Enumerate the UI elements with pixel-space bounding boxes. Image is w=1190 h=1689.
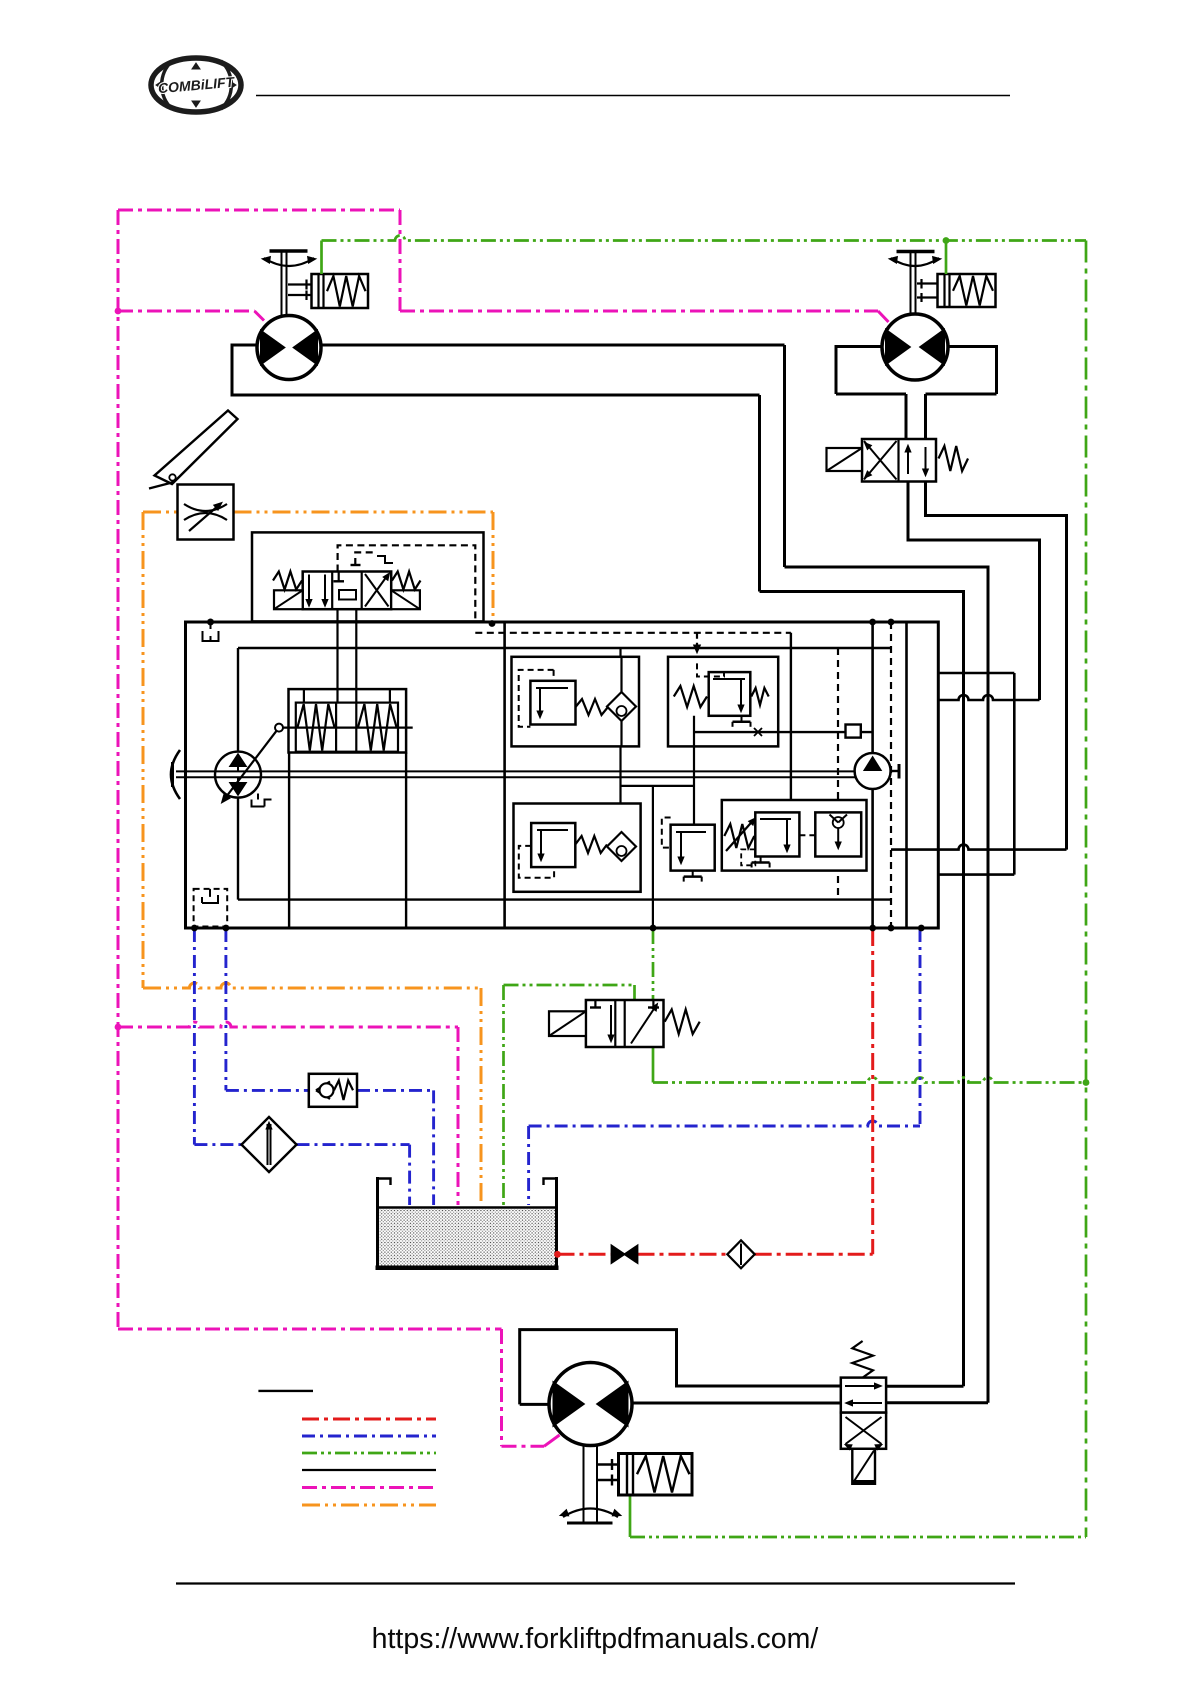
- orange line vertical left: [142, 512, 145, 988]
- hydraulic motor bottom (steer): [549, 1363, 632, 1524]
- brake cylinder right motor: [917, 274, 996, 307]
- magenta left vertical: [117, 210, 120, 1329]
- wire left motor line B: [232, 394, 760, 397]
- green feed vertical: [652, 786, 654, 928]
- block endplate left edge: [905, 622, 908, 928]
- bottom motor wires: [520, 1330, 841, 1405]
- green tank vertical: [502, 985, 505, 1205]
- pilot dashed block top: [475, 632, 791, 634]
- relief cartridge top-right: [668, 657, 778, 747]
- green valve to mid: [652, 1047, 655, 1083]
- red junction tank: [554, 1251, 561, 1258]
- charge gallery line: [694, 731, 872, 733]
- Combilift logo: [151, 58, 241, 112]
- green junction block bottom: [650, 925, 657, 932]
- block inner bottom edge: [238, 898, 891, 900]
- block partition x504: [503, 622, 506, 928]
- green junction right brake: [943, 237, 950, 244]
- wire endplate y673: [939, 672, 1015, 675]
- pilot branch arrow: [694, 633, 701, 653]
- orange line valve to block: [234, 511, 494, 514]
- servo side line left: [288, 753, 290, 929]
- shuttle/flushing valve bottom: [841, 1341, 886, 1484]
- wire bypass vertical: [1013, 673, 1016, 875]
- dashed vertical x838: [837, 648, 839, 900]
- green left brake riser: [320, 241, 323, 275]
- valve housing box: [252, 532, 484, 621]
- magenta to bottom motor: [502, 1435, 560, 1446]
- right motor manifold: [836, 345, 997, 441]
- green mid horizontal: [653, 1078, 1086, 1083]
- red vertical to block: [871, 929, 874, 1254]
- magenta junction mid: [115, 1024, 122, 1031]
- wire left motor frame edge: [231, 344, 234, 397]
- orange line drop to block: [492, 512, 495, 622]
- magenta mid to tank: [457, 1027, 460, 1205]
- brake cylinder bottom motor: [597, 1454, 692, 1496]
- magenta top drop: [399, 210, 402, 311]
- green bottom brake drop: [629, 1495, 632, 1537]
- wire B to riser2: [760, 590, 964, 593]
- legend red: [302, 1418, 436, 1421]
- wire riser2: [962, 590, 965, 1386]
- wire riser1 to shuttle: [886, 1385, 963, 1388]
- blue filter line: [194, 1143, 409, 1146]
- wire endplate y700: [939, 695, 1040, 700]
- relief + check cartridge bottom-right: [722, 800, 867, 871]
- gallery to valve vertical: [693, 716, 695, 825]
- footer url: [372, 1623, 819, 1655]
- blue right to tank: [527, 1126, 530, 1205]
- servo cylinder swashplate actuator: [283, 689, 413, 752]
- legend orange: [302, 1504, 436, 1507]
- charge pump: [855, 753, 899, 789]
- solenoid valve 4/2 right: [827, 439, 969, 482]
- junction dots block bottom: [191, 925, 925, 932]
- variable displacement pump + drive shaft: [171, 750, 855, 799]
- pilot dashed loop: [338, 545, 476, 621]
- wire endplate y874: [939, 873, 1015, 876]
- magenta junction left: [115, 308, 122, 315]
- drain right of pump: [252, 794, 272, 807]
- header rule: [256, 95, 1010, 97]
- drain box bottom-left: [194, 889, 228, 927]
- pilot line to relief: [790, 633, 792, 813]
- wire 4/2 out left: [908, 481, 1040, 701]
- block inner left edge: [237, 648, 239, 900]
- hydraulic motor left wheel: [257, 251, 321, 380]
- magenta top horizontal: [118, 209, 400, 212]
- solenoid valve 2/2 brake release: [549, 1000, 700, 1047]
- drain top-left: [203, 619, 219, 641]
- green right vertical: [1085, 241, 1088, 1538]
- relief cartridge top-left: [512, 648, 640, 892]
- pilot dashed inner: [351, 552, 394, 565]
- relief cartridge bottom-left: [514, 804, 641, 892]
- magenta mid horizontal: [118, 1022, 458, 1027]
- wire riser2 to shuttle: [886, 1401, 988, 1404]
- green block to valve: [652, 929, 655, 1000]
- wire B vertical: [758, 395, 761, 592]
- suction strainer: [727, 1240, 754, 1268]
- inch pedal: [149, 411, 238, 489]
- red junction block bottom: [869, 925, 876, 932]
- legend mark black short: [258, 1390, 313, 1392]
- legend green: [302, 1452, 436, 1455]
- green bottom horizontal: [630, 1536, 1086, 1539]
- orange line to tank: [480, 988, 483, 1205]
- footer rule: [176, 1582, 1015, 1584]
- junction dots block top: [207, 619, 894, 626]
- suction filter: [242, 1117, 297, 1172]
- link y785: [621, 785, 695, 787]
- wire riser1: [987, 566, 990, 1403]
- hydraulic motor right wheel: [882, 252, 948, 381]
- red suction line: [558, 1253, 873, 1256]
- green top line: [322, 236, 1087, 241]
- orange line bottom: [143, 983, 481, 988]
- proportional valve 4/3: [273, 572, 421, 610]
- control line b: [355, 609, 357, 702]
- wire endplate y849: [891, 845, 1067, 850]
- hydraulic tank: [376, 1177, 559, 1269]
- legend magenta: [302, 1486, 436, 1489]
- svg-text:https://www.forkliftpdfmanuals: https://www.forkliftpdfmanuals.com/: [372, 1623, 819, 1655]
- control line a: [336, 609, 338, 702]
- brake cylinder left motor: [288, 274, 368, 308]
- blue check to tank: [432, 1090, 435, 1205]
- blue check line: [226, 1089, 434, 1092]
- orange line to valve: [143, 511, 178, 514]
- blue right vertical: [919, 929, 922, 1126]
- legend blue: [302, 1435, 436, 1438]
- check valve with spring: [309, 1074, 357, 1107]
- green junction mid: [1083, 1079, 1090, 1086]
- servo side line right: [405, 753, 407, 929]
- green tank branch: [504, 985, 635, 1000]
- green right brake drop: [945, 241, 948, 275]
- blue right horizontal: [529, 1121, 920, 1126]
- blue filter to tank: [408, 1145, 411, 1205]
- shutoff gate valve: [612, 1246, 638, 1264]
- flow control valve (inching): [178, 485, 234, 540]
- magenta to left motor: [118, 311, 264, 321]
- block inner top edge: [238, 647, 891, 649]
- wire left motor line A: [232, 344, 785, 347]
- pump swashplate lever: [222, 724, 284, 803]
- wire A to riser1: [785, 566, 989, 569]
- charge line vertical: [871, 622, 874, 928]
- magenta bottom vertical: [500, 1329, 503, 1446]
- magenta to right motor: [400, 311, 889, 322]
- pump block outer frame: [186, 622, 939, 928]
- orifice on gallery: [846, 725, 861, 738]
- legend black: [302, 1469, 436, 1471]
- orange junction block top: [489, 620, 496, 627]
- plug mark: [754, 728, 762, 736]
- block endplate dashed line: [890, 622, 892, 928]
- pressure valve center-bottom: [662, 818, 715, 882]
- wire A vertical: [783, 345, 786, 567]
- blue drain left vertical: [193, 929, 196, 1145]
- blue drain left vertical2: [224, 929, 227, 1090]
- magenta bottom horizontal: [118, 1328, 502, 1331]
- wire 4/2 out right: [926, 481, 1067, 850]
